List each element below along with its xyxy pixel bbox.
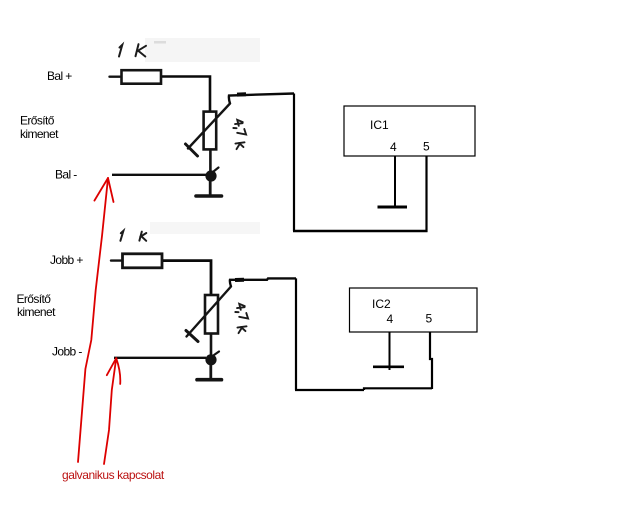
- wire P1 top hook to horizontal: [229, 94, 294, 104]
- svg-text:Erősítő: Erősítő: [17, 292, 52, 306]
- wire IC2 pin4: [389, 332, 391, 370]
- ground GND4 bar (IC2 pin4): [373, 365, 404, 368]
- svg-text:galvanikus kapcsolat: galvanikus kapcsolat: [62, 468, 165, 482]
- ground GND3 bar: [197, 378, 222, 382]
- wire horizontal to IC1 pin5: [293, 230, 428, 233]
- wire IC2 pin5: [430, 332, 432, 389]
- svg-text:Bal +: Bal +: [47, 69, 72, 83]
- potentiometer P2 wiper diagonal: [187, 287, 232, 337]
- svg-text:kimenet: kimenet: [20, 127, 59, 141]
- svg-text:4: 4: [390, 140, 397, 154]
- red arrow 2 (short, to Jobb - junction): [104, 358, 120, 464]
- wire Jobb - horizontal: [114, 357, 206, 359]
- scan smudge middle: [150, 222, 260, 234]
- svg-text:5: 5: [423, 140, 430, 154]
- value label 4,7 k (P2, rotated): [232, 303, 251, 334]
- svg-text:5: 5: [426, 312, 433, 326]
- scan smudge top: [145, 38, 260, 62]
- wire blob on horizontal: [237, 92, 246, 96]
- red arrow 1 (long, to Bal - junction): [78, 178, 114, 462]
- value label 1 k (R2): [120, 231, 146, 241]
- svg-text:4: 4: [387, 312, 394, 326]
- svg-text:IC1: IC1: [370, 118, 389, 132]
- svg-text:IC2: IC2: [372, 297, 391, 311]
- junction node (Jobb - / P2 bottom): [205, 354, 216, 365]
- resistor R2 body: [123, 254, 163, 268]
- potentiometer P1 wiper end bar: [186, 144, 198, 156]
- junction tick (P2): [214, 352, 219, 356]
- value label 1 k (R1): [119, 44, 146, 56]
- potentiometer P2 body 4,7k: [205, 295, 218, 334]
- value label 4,7 k (P1, rotated): [230, 119, 249, 150]
- IC1 box: [344, 106, 475, 156]
- wire IC1 pin5: [425, 156, 427, 232]
- wire IC1 pin4: [394, 156, 396, 207]
- wire P2 top hook to horizontal: [230, 278, 296, 286]
- ground GND1 bar: [196, 194, 222, 198]
- wire blob on horizontal (P2): [235, 278, 244, 282]
- junction tick: [214, 168, 219, 172]
- wire R1 left lead: [110, 75, 121, 77]
- svg-text:Erősítő: Erősítő: [20, 114, 55, 128]
- ground GND2 bar (IC1 pin4): [378, 206, 408, 209]
- svg-text:Jobb +: Jobb +: [50, 253, 83, 267]
- wire horizontal to IC2 pin5 (right part): [364, 388, 432, 390]
- wire R2 right lead to corner: [163, 261, 211, 296]
- junction node (Bal - / P1 bottom): [205, 170, 216, 181]
- potentiometer P1 wiper diagonal: [188, 104, 230, 149]
- scan faint dash: [154, 41, 166, 44]
- wire horizontal to IC2 pin5 (left part): [295, 389, 364, 391]
- wire vertical right of P2 down: [295, 278, 297, 390]
- svg-text:Jobb -: Jobb -: [52, 345, 82, 359]
- wire R1 right lead to corner: [162, 77, 210, 113]
- potentiometer P2 wiper end bar: [186, 331, 198, 342]
- wire P2 bottom to junction: [210, 334, 213, 360]
- IC2 box: [350, 288, 478, 332]
- wire junction to ground: [209, 176, 212, 195]
- wire Bal - horizontal: [112, 174, 206, 176]
- resistor R1 body: [122, 70, 162, 84]
- wire vertical right of P1 down: [293, 94, 295, 232]
- wire junction to ground (P2): [209, 360, 212, 378]
- potentiometer P1 body 4,7k: [204, 112, 217, 150]
- svg-text:kimenet: kimenet: [17, 305, 56, 319]
- svg-text:Bal -: Bal -: [55, 168, 77, 182]
- wire P1 bottom to junction: [209, 150, 212, 177]
- wire R2 left lead: [111, 259, 121, 261]
